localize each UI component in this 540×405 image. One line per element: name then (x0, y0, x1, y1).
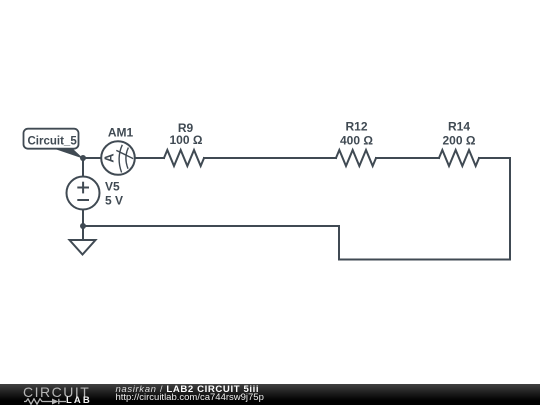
svg-text:5 V: 5 V (105, 194, 123, 208)
svg-text:R12: R12 (345, 120, 367, 134)
svg-text:R14: R14 (448, 120, 470, 134)
svg-text:V5: V5 (105, 180, 120, 194)
svg-text:400 Ω: 400 Ω (340, 134, 373, 148)
svg-text:Circuit_5: Circuit_5 (28, 136, 78, 148)
svg-text:AM1: AM1 (108, 126, 134, 140)
svg-text:100 Ω: 100 Ω (170, 133, 203, 147)
svg-text:200 Ω: 200 Ω (443, 134, 476, 148)
svg-text:A: A (101, 153, 116, 163)
